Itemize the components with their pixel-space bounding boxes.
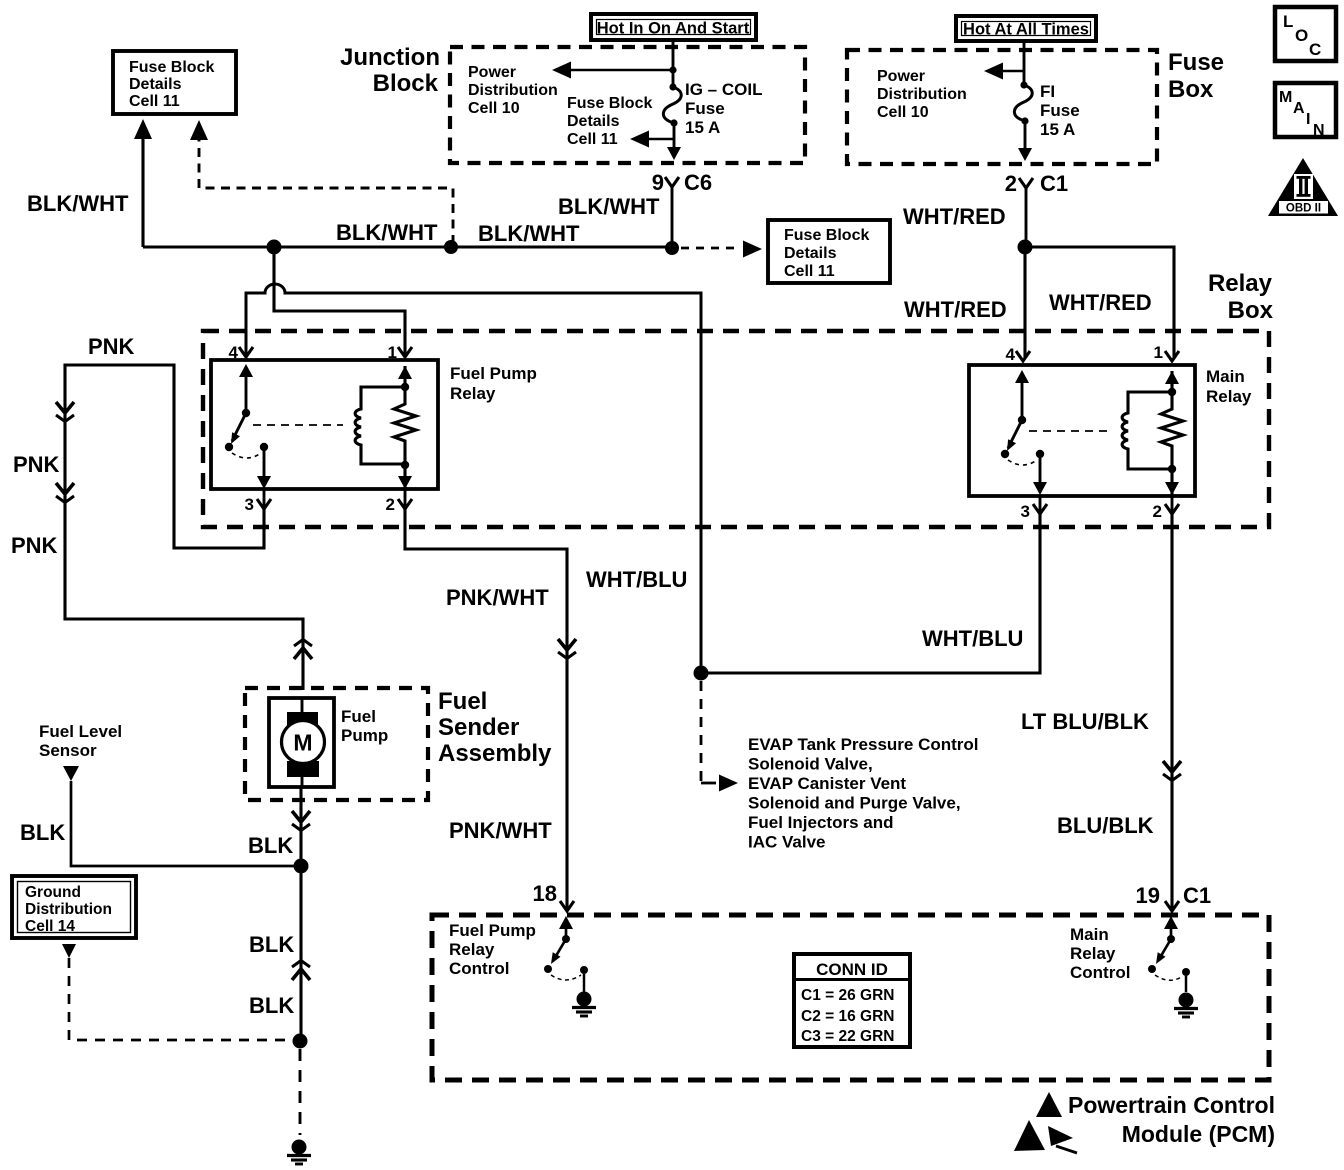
svg-text:Fuse Block: Fuse Block	[129, 59, 214, 76]
svg-text:Main: Main	[1206, 367, 1245, 386]
wire: WHT/BLU feed to fuel pump relay pin 4 (with hop) down to node	[246, 284, 701, 666]
svg-text:Fuel Injectors and: Fuel Injectors and	[748, 813, 893, 832]
chevrons: fuel pump feed	[294, 640, 312, 660]
svg-text:Control: Control	[1070, 963, 1130, 982]
node: junction at 274,247	[267, 240, 282, 255]
wire: BLK/WHT solid arrow up to Fuse Block Details box	[134, 119, 152, 247]
label: Fuel Sender Assembly	[438, 688, 552, 767]
pin 4 (fuel pump relay)	[229, 343, 253, 362]
dashed link: fuel pump relay armature to coil	[253, 424, 343, 426]
arrow: to Power Distribution Cell 10	[552, 62, 672, 79]
svg-text:WHT/RED: WHT/RED	[903, 204, 1006, 229]
wire: BLK to fuel level sensor (triangle tap)	[63, 766, 294, 866]
svg-text:WHT/BLU: WHT/BLU	[586, 567, 687, 592]
svg-text:CONN ID: CONN ID	[816, 960, 888, 979]
text: EVAP loads list	[748, 735, 979, 852]
svg-text:15 A: 15 A	[685, 118, 720, 137]
svg-text:IAC Valve: IAC Valve	[748, 833, 826, 852]
label: Main Relay	[1206, 367, 1252, 406]
svg-text:Cell 14: Cell 14	[25, 918, 75, 935]
wire: WHT/RED from C1 down	[1025, 188, 1028, 242]
svg-text:Relay: Relay	[1208, 270, 1273, 297]
box: Fuse Block Details Cell 11 (top left)	[113, 51, 236, 114]
connector pin: 2 C1	[1005, 171, 1068, 196]
svg-text:Fuel Pump: Fuel Pump	[450, 364, 537, 383]
label: Fuel Pump Relay	[450, 364, 537, 403]
symbol: LOC box	[1275, 7, 1336, 61]
svg-text:C3 = 22 GRN: C3 = 22 GRN	[801, 1028, 894, 1045]
svg-text:PNK/WHT: PNK/WHT	[449, 818, 552, 843]
svg-text:Junction: Junction	[340, 44, 440, 71]
svg-text:Relay: Relay	[449, 940, 495, 959]
svg-text:Details: Details	[784, 245, 837, 262]
fuse: FI Fuse 15 A	[1014, 42, 1032, 161]
svg-text:Solenoid and Purge Valve,: Solenoid and Purge Valve,	[748, 794, 961, 813]
label: Fuel Pump	[341, 707, 388, 745]
svg-text:BLK: BLK	[249, 932, 294, 957]
box: Fuel Sender Assembly dashed outline	[245, 688, 428, 800]
label: FI Fuse 15 A	[1040, 82, 1080, 139]
svg-text:C1 = 26 GRN: C1 = 26 GRN	[801, 987, 894, 1004]
symbol: OBD II triangle	[1268, 158, 1338, 216]
wire: WHT/BLU to main relay pin 3	[701, 514, 1040, 673]
svg-text:C6: C6	[684, 170, 712, 195]
node: junction at 451,247	[444, 240, 458, 254]
svg-text:Pump: Pump	[341, 726, 388, 745]
switch: fuel pump relay contacts	[225, 364, 271, 489]
svg-text:PNK: PNK	[11, 533, 58, 558]
fuse: IG-COIL Fuse 15 A	[663, 40, 681, 160]
text: Power Distribution Cell 10 (fuse box)	[877, 68, 967, 121]
svg-text:3: 3	[245, 495, 254, 514]
svg-text:Fuel: Fuel	[438, 688, 487, 715]
coil junction dots (fuel pump relay)	[398, 366, 412, 489]
box: Ground Distribution Cell 14	[12, 876, 136, 938]
wire: BLK/WHT from junction down to fuel pump relay pin 1	[274, 254, 405, 354]
svg-text:BLU/BLK: BLU/BLK	[1057, 813, 1154, 838]
connector pin: 9 C6	[652, 170, 712, 195]
wire: main BLK/WHT horizontal	[143, 245, 674, 248]
svg-text:C1: C1	[1040, 171, 1068, 196]
svg-text:M: M	[293, 730, 312, 756]
svg-text:Hot At All Times: Hot At All Times	[963, 21, 1089, 39]
svg-text:2: 2	[1005, 171, 1017, 196]
wire: dashed arrow up to Fuse Block Details box	[190, 120, 453, 244]
arrow: dashed to Fuse Block Details box (middle)	[681, 241, 762, 258]
pin 2 (fuel pump relay)	[386, 489, 412, 514]
svg-text:Cell 11: Cell 11	[129, 93, 180, 110]
ground: bottom left	[287, 1049, 311, 1164]
svg-text:IG – COIL: IG – COIL	[685, 80, 762, 99]
svg-text:Box: Box	[1168, 76, 1214, 103]
wire: PNK from fuel pump relay pin 3 to fuel pump	[65, 365, 303, 690]
svg-text:Ground: Ground	[25, 884, 81, 901]
svg-text:I: I	[1306, 111, 1310, 128]
relay: Main Relay box	[969, 365, 1195, 496]
svg-text:2: 2	[386, 495, 395, 514]
node: BLK junction at fuel level sensor tap	[294, 859, 309, 874]
svg-text:Power: Power	[877, 68, 925, 85]
arrow: to Power Distribution Cell 10 (fuse box)	[984, 63, 1024, 80]
chevrons: PNK/WHT wire	[558, 639, 576, 659]
pin 3 (main relay)	[1021, 495, 1047, 521]
svg-text:EVAP Canister Vent: EVAP Canister Vent	[748, 774, 906, 793]
box: PCM dashed outline	[432, 915, 1269, 1080]
svg-text:Fuse Block: Fuse Block	[567, 95, 652, 112]
svg-text:OBD II: OBD II	[1286, 203, 1321, 215]
svg-text:C2 = 16 GRN: C2 = 16 GRN	[801, 1008, 894, 1025]
switch: main relay control (PCM)	[1148, 916, 1190, 980]
svg-text:PNK: PNK	[88, 334, 135, 359]
svg-text:FI: FI	[1040, 82, 1055, 101]
label: Fuse Box	[1168, 49, 1224, 103]
ground: fuel pump relay control	[572, 974, 596, 1016]
svg-text:Fuse: Fuse	[1040, 101, 1080, 120]
node: BLK ground junction	[293, 1034, 308, 1049]
coil: fuel pump relay	[355, 387, 405, 464]
text: Fuse Block Details Cell 11 (junction block)	[567, 95, 652, 148]
svg-text:EVAP Tank Pressure Control: EVAP Tank Pressure Control	[748, 735, 979, 754]
svg-text:Box: Box	[1228, 297, 1274, 324]
box: Junction Block dashed outline	[450, 47, 805, 163]
svg-text:Fuse: Fuse	[1168, 49, 1224, 76]
switch: fuel pump relay control (PCM)	[544, 916, 588, 980]
resistor: main relay	[1161, 371, 1183, 495]
svg-text:A: A	[1293, 100, 1305, 117]
label: Junction Block	[340, 44, 440, 97]
svg-text:Control: Control	[449, 959, 509, 978]
svg-text:BLK/WHT: BLK/WHT	[336, 220, 438, 245]
svg-text:1: 1	[388, 343, 397, 362]
svg-text:LT BLU/BLK: LT BLU/BLK	[1021, 709, 1149, 734]
svg-text:Cell 10: Cell 10	[877, 104, 929, 121]
svg-text:BLK/WHT: BLK/WHT	[27, 191, 129, 216]
svg-text:Relay: Relay	[1070, 944, 1116, 963]
svg-text:BLK/WHT: BLK/WHT	[478, 221, 580, 246]
svg-text:19: 19	[1136, 883, 1160, 908]
svg-text:Hot In On And Start: Hot In On And Start	[597, 20, 750, 38]
switch: main relay contacts	[1001, 370, 1047, 495]
pin 3 (fuel pump relay)	[245, 489, 271, 514]
svg-text:Distribution: Distribution	[877, 86, 967, 103]
motor: Fuel Pump	[269, 698, 334, 787]
svg-text:BLK: BLK	[248, 833, 293, 858]
svg-text:BLK: BLK	[20, 820, 65, 845]
svg-text:M: M	[1279, 89, 1292, 106]
coil: main relay	[1122, 392, 1172, 469]
svg-text:Block: Block	[373, 70, 439, 97]
pin 1 (fuel pump relay)	[388, 343, 412, 362]
node: WHT/BLU junction	[694, 666, 709, 681]
svg-text:Fuel Level: Fuel Level	[39, 722, 122, 741]
label: Relay Box	[1208, 270, 1274, 324]
label: Fuel Pump Relay Control	[449, 921, 536, 978]
svg-text:Details: Details	[129, 76, 182, 93]
svg-text:18: 18	[533, 881, 557, 906]
svg-text:Main: Main	[1070, 925, 1109, 944]
svg-text:Details: Details	[567, 113, 620, 130]
chevrons: LT BLU/BLK wire	[1163, 761, 1181, 781]
node: junction at 1025,247	[1018, 240, 1033, 255]
svg-text:O: O	[1295, 26, 1308, 45]
label: Fuel Level Sensor	[39, 722, 122, 760]
chevrons: PNK wire (lower)	[56, 483, 74, 503]
symbol: MAIN box	[1275, 83, 1336, 139]
wire: dashed from Ground Distribution to BLK ground node	[62, 944, 292, 1040]
svg-text:15 A: 15 A	[1040, 120, 1075, 139]
coil junction dots (main relay)	[1165, 371, 1179, 495]
svg-text:3: 3	[1021, 502, 1030, 521]
svg-text:Distribution: Distribution	[25, 901, 112, 918]
svg-text:BLK/WHT: BLK/WHT	[558, 194, 660, 219]
svg-text:Cell 11: Cell 11	[567, 131, 618, 148]
svg-text:Sender: Sender	[438, 714, 519, 741]
svg-text:Powertrain Control: Powertrain Control	[1068, 1092, 1275, 1118]
banner: Hot At All Times	[956, 16, 1096, 41]
dashed link: main relay armature to coil	[1029, 430, 1110, 432]
svg-text:N: N	[1313, 122, 1325, 139]
svg-text:Solenoid Valve,: Solenoid Valve,	[748, 755, 873, 774]
arrow: to Fuse Block Details Cell 11	[630, 131, 673, 148]
svg-text:Fuel: Fuel	[341, 707, 376, 726]
svg-text:Power: Power	[468, 64, 516, 81]
table: CONN ID	[794, 954, 910, 1047]
relay: Fuel Pump Relay box	[211, 360, 438, 489]
wire: dashed to EVAP loads with arrow	[701, 681, 738, 792]
svg-text:BLK: BLK	[249, 993, 294, 1018]
svg-text:Cell 11: Cell 11	[784, 263, 835, 280]
connector pin: 19 C1	[1136, 883, 1212, 911]
svg-text:Module (PCM): Module (PCM)	[1122, 1121, 1275, 1147]
svg-text:Assembly: Assembly	[438, 740, 552, 767]
resistor: fuel pump relay	[394, 366, 416, 489]
pin 4 (main relay)	[1006, 345, 1030, 364]
svg-text:L: L	[1283, 12, 1293, 31]
svg-text:PNK/WHT: PNK/WHT	[446, 585, 549, 610]
svg-text:Relay: Relay	[450, 384, 496, 403]
svg-text:Fuse: Fuse	[685, 99, 725, 118]
svg-text:WHT/BLU: WHT/BLU	[922, 626, 1023, 651]
label: Main Relay Control	[1070, 925, 1130, 982]
svg-text:4: 4	[229, 343, 239, 362]
svg-text:C1: C1	[1183, 883, 1211, 908]
chevrons: BLK ground wire	[292, 961, 310, 981]
svg-text:Sensor: Sensor	[39, 741, 97, 760]
wire: WHT/RED to main relay pins 4 and 1	[1025, 247, 1174, 358]
svg-text:Fuel Pump: Fuel Pump	[449, 921, 536, 940]
svg-text:9: 9	[652, 170, 664, 195]
svg-text:Fuse Block: Fuse Block	[784, 227, 869, 244]
wire: BLK below fuel pump	[299, 787, 302, 1041]
svg-text:PNK: PNK	[13, 452, 60, 477]
wire: PNK/WHT from fuel pump relay pin 2 to PCM pin 18	[405, 509, 567, 911]
svg-text:1: 1	[1154, 343, 1163, 362]
box: Fuse Block Details Cell 11 (middle)	[768, 220, 890, 283]
svg-text:2: 2	[1153, 502, 1162, 521]
text: Power Distribution Cell 10 (junction block)	[468, 64, 558, 117]
banner: Hot In On And Start	[591, 14, 756, 40]
pin 2 (main relay)	[1153, 495, 1179, 521]
svg-text:C: C	[1309, 40, 1321, 59]
svg-text:WHT/RED: WHT/RED	[904, 297, 1007, 322]
ground: main relay control	[1174, 976, 1198, 1017]
label: Powertrain Control Module (PCM)	[1068, 1092, 1275, 1147]
pin 1 (main relay)	[1154, 343, 1179, 362]
svg-text:Relay: Relay	[1206, 387, 1252, 406]
symbol: ESD triangles	[1014, 1092, 1077, 1153]
chevrons: PNK wire (upper)	[56, 402, 74, 422]
box: Relay Box dashed outline	[203, 331, 1269, 527]
box: Fuse Box dashed outline	[847, 50, 1157, 164]
label: IG-COIL Fuse 15 A	[685, 80, 762, 137]
node: junction at 672,248	[665, 241, 679, 255]
connector pin: 18	[533, 881, 574, 911]
wire: main relay pin 2 down to PCM pin 19	[1170, 514, 1173, 911]
wire: BLK/WHT from C6 down to junction	[671, 187, 674, 242]
svg-text:WHT/RED: WHT/RED	[1049, 290, 1152, 315]
svg-text:4: 4	[1006, 345, 1016, 364]
svg-text:Cell 10: Cell 10	[468, 100, 520, 117]
chevrons: BLK below pump	[292, 811, 310, 831]
svg-text:Distribution: Distribution	[468, 82, 558, 99]
